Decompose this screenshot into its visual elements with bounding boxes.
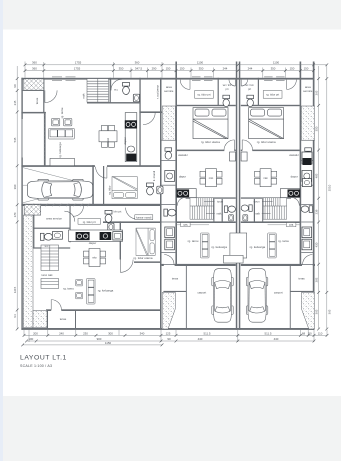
party wall right leaf — [239, 62, 241, 330]
left unit: teras right wall — [43, 78, 44, 113]
outer top wall — [21, 78, 314, 80]
left top bathroom sink — [133, 94, 139, 102]
svg-text:900: 900 — [97, 337, 102, 341]
corridor sink oval — [108, 223, 114, 231]
left unit top wall windows — [52, 77, 76, 81]
svg-text:dapur: dapur — [89, 241, 97, 245]
left unit: wall under stairs/bath y102.6 — [87, 102, 141, 103]
svg-text:350: 350 — [199, 66, 204, 70]
left unit: service rooms left wall x33.8 — [33, 206, 34, 249]
strip toilet2 horizontal — [164, 209, 176, 216]
top dim row 1 — [25, 64, 314, 66]
svg-text:90: 90 — [167, 337, 171, 341]
strip washer box — [165, 171, 175, 182]
left kitchen black appliance — [126, 154, 136, 161]
unit1 bath sink — [229, 215, 234, 221]
right strip dotted taper bottom — [301, 292, 314, 329]
left carport car (horizontal) — [27, 179, 92, 200]
svg-text:535: 535 — [13, 137, 17, 142]
left unit: bedroom1 top wall right of door — [107, 165, 162, 167]
u1 stairs treads (two flights, vertical treads) — [190, 198, 215, 219]
left blue edge strip — [0, 0, 3, 461]
teras inner door arc — [45, 90, 57, 102]
bottom dim row 1 — [24, 334, 327, 336]
svg-text:turun: turun — [217, 200, 223, 204]
strip between units: room divider lines — [162, 140, 314, 264]
svg-text:naik: naik — [82, 93, 86, 99]
left unit: wall y112 middle part — [139, 111, 176, 113]
svg-text:mkn: mkn — [209, 177, 214, 180]
boxed labels — [135, 215, 153, 220]
svg-text:265: 265 — [314, 90, 318, 95]
right strip teras door arc (mirror) — [303, 255, 313, 265]
extension lines top — [24, 62, 26, 78]
svg-text:kamar mandi: kamar mandi — [136, 215, 151, 219]
left unit: service rooms divider x70 — [70, 206, 71, 243]
svg-text:365: 365 — [327, 309, 331, 314]
svg-text:r. cuci jemur: r. cuci jemur — [156, 85, 160, 99]
svg-text:1100: 1100 — [197, 61, 204, 65]
svg-text:rg. tidur: rg. tidur — [108, 185, 112, 194]
svg-text:90: 90 — [13, 84, 17, 88]
unit2 family sofa — [268, 233, 277, 258]
unit2 bed — [249, 108, 284, 139]
svg-text:360: 360 — [32, 66, 37, 70]
u1 bath left wall x222 — [222, 199, 223, 222]
bedroom1 door arc — [96, 167, 107, 178]
unit2 bath toilet horizontal — [241, 205, 252, 211]
svg-text:mkn: mkn — [263, 177, 268, 180]
svg-text:150: 150 — [166, 66, 171, 70]
hatched wall ticks x44.5 — [44, 114, 46, 160]
right strip mirrors — [305, 148, 312, 159]
svg-text:wastafel: wastafel — [178, 154, 188, 157]
strip divider y160 — [162, 159, 176, 161]
svg-text:wc / km: wc / km — [223, 84, 231, 87]
u1 maid room divider x218 — [218, 78, 219, 106]
svg-text:rg. tamu: rg. tamu — [63, 286, 74, 290]
left unit: carport right wall — [92, 165, 94, 206]
area service door arc — [64, 211, 74, 221]
u1 bedroom bottom wall y150 right stub — [234, 150, 236, 152]
bottom dim row 3 — [23, 344, 162, 346]
svg-text:rg. tidur utama: rg. tidur utama — [201, 140, 220, 144]
svg-text:125: 125 — [166, 331, 171, 335]
svg-text:teras: teras — [60, 317, 67, 321]
carport to service door arc — [73, 206, 83, 216]
svg-text:rg. tidur prt: rg. tidur prt — [198, 92, 211, 96]
right strip divider y160 — [301, 159, 313, 161]
right-unit1 left wall (stops at family row) — [175, 62, 177, 267]
left unit: bedroom2 left wall — [120, 221, 121, 259]
svg-text:390: 390 — [13, 184, 17, 189]
planter box across party wall — [230, 233, 247, 258]
stairs top (left unit) — [87, 79, 109, 103]
unit1 bed — [193, 108, 228, 139]
bottom-left crosshatch box under carport wall — [24, 205, 41, 216]
svg-text:100: 100 — [28, 337, 33, 341]
svg-text:244: 244 — [248, 66, 253, 70]
u1 stairs right wall x214 — [213, 199, 214, 222]
strip teras door arc — [164, 255, 174, 265]
svg-text:230: 230 — [83, 331, 88, 335]
kitchen corridor door arc — [126, 208, 137, 219]
top dim row 2 — [25, 70, 314, 72]
left unit: teras right wall — [75, 310, 76, 329]
svg-text:rg. tidur prt: rg. tidur prt — [266, 92, 279, 96]
svg-text:prt: prt — [248, 88, 251, 91]
mid strip dotted hatch (left service shaft) — [162, 106, 175, 140]
left unit family: two armchairs — [76, 280, 83, 286]
svg-text:rg. tamu: rg. tamu — [60, 107, 64, 118]
left unit right boundary wall x161 — [160, 78, 162, 330]
svg-text:350: 350 — [271, 66, 276, 70]
corridor toilet — [105, 210, 112, 222]
service white box — [113, 232, 122, 240]
right-unit2 right wall (stops at family row) — [300, 62, 302, 267]
svg-text:rg. tamu: rg. tamu — [188, 239, 199, 243]
u1 maid rooms bottom wall y105.3 — [177, 105, 236, 106]
left unit dining set 1 (vertical) — [99, 125, 117, 147]
unit1 maid wc toilet — [223, 95, 230, 106]
svg-text:440: 440 — [198, 337, 203, 341]
svg-text:68: 68 — [302, 331, 306, 335]
svg-text:carport: carport — [274, 290, 283, 294]
left unit: teras left wall — [47, 310, 48, 329]
left unit dining set 2 — [84, 249, 106, 267]
svg-text:440: 440 — [274, 337, 279, 341]
u1 wc door arc — [229, 80, 235, 86]
right vertical dim line outer — [326, 65, 328, 329]
strip divider y222 — [162, 221, 176, 223]
svg-text:dapur: dapur — [179, 174, 186, 178]
svg-text:dapur: dapur — [123, 137, 127, 145]
left top bathroom toilet — [123, 83, 130, 95]
svg-text:238: 238 — [314, 209, 318, 214]
left unit: row divider wall y222 — [103, 221, 162, 223]
svg-text:350: 350 — [119, 66, 124, 70]
strip divider y264 — [162, 264, 176, 266]
service kitchen counter row — [69, 230, 123, 241]
right strip divider y204 — [301, 204, 313, 206]
unit2 dining set — [255, 169, 277, 187]
svg-text:1100: 1100 — [273, 61, 280, 65]
right strip divider y222 — [301, 221, 313, 223]
carport wedge lines — [23, 168, 91, 203]
right strip divider y140 — [301, 139, 313, 141]
outer right wall — [313, 62, 315, 330]
svg-text:service: service — [164, 89, 174, 93]
svg-text:service: service — [303, 89, 313, 93]
svg-text:360: 360 — [32, 61, 37, 65]
dim ticks — [16, 63, 329, 346]
svg-text:975: 975 — [289, 224, 294, 227]
svg-text:282: 282 — [314, 277, 318, 282]
left wall window (living room) — [21, 119, 23, 158]
svg-text:rg. keluarga: rg. keluarga — [98, 288, 114, 292]
left unit: wall under terrace hatch — [22, 89, 44, 92]
svg-text:1150: 1150 — [105, 341, 112, 345]
strip divider y140 — [162, 139, 176, 141]
left unit: carport top wall — [21, 165, 95, 167]
svg-text:300: 300 — [108, 331, 113, 335]
svg-text:975: 975 — [183, 224, 188, 227]
strip divider y204 — [162, 204, 176, 206]
outer bottom wall — [21, 328, 314, 330]
left unit: teras top wall left piece — [46, 309, 51, 311]
unit1 kitchen counter — [177, 189, 196, 198]
svg-text:rg. keluarga: rg. keluarga — [58, 142, 62, 158]
outer left wall — [21, 78, 22, 330]
left unit living: two armchairs — [52, 119, 60, 126]
carport south wall hatch ticks — [24, 203, 90, 206]
svg-text:teras: teras — [172, 277, 179, 281]
unit2 right-edge kitchen boxes (next to strip) — [302, 152, 312, 164]
svg-text:prt: prt — [226, 88, 229, 91]
svg-text:420: 420 — [314, 242, 318, 247]
left unit bed1 (vertical, pillows at bottom) — [112, 177, 137, 199]
svg-text:rg. tidur utama: rg. tidur utama — [257, 140, 276, 144]
u1 window marks on top wall — [192, 76, 201, 78]
svg-text:rg. keluarga: rg. keluarga — [250, 245, 266, 249]
svg-text:150: 150 — [290, 66, 295, 70]
svg-text:rg. tamu: rg. tamu — [278, 239, 289, 243]
unit1 dining set — [200, 169, 222, 187]
u1 teras bottom wall y291 — [163, 291, 186, 292]
stairs bottom-left (left unit) — [41, 245, 59, 289]
right strip divider y185 — [301, 184, 313, 186]
left unit: teras top wall right piece — [61, 309, 161, 311]
svg-text:naik: naik — [217, 212, 222, 216]
bottom dim row 2 — [27, 340, 315, 342]
svg-text:50: 50 — [308, 331, 312, 335]
right unit 2 mirrored geometry — [241, 77, 315, 330]
svg-text:244: 244 — [223, 66, 228, 70]
svg-text:200: 200 — [33, 331, 38, 335]
svg-text:turun naik: turun naik — [42, 274, 54, 277]
svg-text:LAYOUT LT.1: LAYOUT LT.1 — [20, 355, 67, 362]
left unit: bedroom1 left wall — [103, 166, 104, 205]
bathroom top door arc — [111, 79, 122, 90]
svg-text:carport: carport — [197, 290, 206, 294]
right strip divider y252 — [301, 252, 313, 254]
svg-text:150: 150 — [304, 66, 309, 70]
left kitchen stove — [125, 120, 137, 128]
svg-text:94: 94 — [13, 314, 17, 318]
svg-text:290: 290 — [152, 66, 157, 70]
right vertical dim line inner — [318, 66, 320, 329]
svg-text:k. mandi: k. mandi — [152, 171, 156, 182]
unit1 fridge on divider — [230, 152, 236, 161]
svg-text:511.5: 511.5 — [203, 331, 210, 335]
u1 bedroom door arc — [224, 140, 234, 150]
left unit: wall x140 (bath/kitchen) — [139, 78, 140, 166]
unit1 family sofa — [200, 233, 209, 258]
svg-text:teras: teras — [35, 97, 39, 104]
left kitchen column counter — [125, 113, 137, 162]
strip divider y185 — [162, 184, 176, 186]
svg-text:turun: turun — [254, 200, 260, 204]
left bath2 toilet — [147, 183, 154, 195]
unit1 carport car — [212, 269, 233, 323]
bedroom2 door arc — [120, 260, 133, 273]
svg-text:511.5: 511.5 — [264, 331, 271, 335]
left unit: hatched side wall x44.5 — [44, 113, 46, 165]
left unit: stairs/bath divider x110 — [110, 78, 111, 103]
service stove — [76, 232, 90, 240]
unit2 bath sink — [243, 215, 248, 221]
unit2 carport car — [246, 269, 267, 323]
svg-text:1755: 1755 — [74, 66, 81, 70]
bottom gray band — [0, 396, 341, 461]
extension lines bottom — [23, 330, 25, 336]
u1 teras/carport divider x186.3 — [185, 266, 188, 330]
svg-text:dapur: dapur — [291, 174, 298, 178]
strip washer boxes pair — [165, 227, 175, 238]
svg-text:rg. keluarga: rg. keluarga — [211, 245, 227, 249]
left unit family: long sofa vertical — [86, 279, 95, 305]
u1 bedroom bottom wall y150 left piece — [177, 150, 225, 152]
svg-text:naik: naik — [255, 212, 260, 216]
unit1 family dim callout line — [177, 224, 209, 226]
right strip dotted hatch — [301, 106, 314, 140]
front entry door arc — [51, 300, 61, 310]
left unit sideboard — [50, 158, 75, 165]
u1 stair-hall door arc — [177, 197, 185, 205]
svg-text:SCALE 1:100 / A3: SCALE 1:100 / A3 — [20, 364, 52, 368]
svg-text:mkn: mkn — [92, 257, 97, 260]
svg-text:mkn: mkn — [107, 137, 110, 142]
svg-text:347.5: 347.5 — [135, 66, 143, 70]
service black appliance — [100, 232, 112, 240]
left unit: wall y112 left part — [21, 112, 46, 114]
u1 family row bottom wall y264 — [175, 264, 236, 266]
dim numbers — [28, 61, 322, 345]
bottom-left dotted strip horizontal part — [33, 310, 47, 327]
left unit living: long sofa horizontal — [48, 128, 74, 139]
mid strip dotted taper bottom-left — [162, 292, 175, 329]
u1 dining bottom wall y198.6 — [186, 197, 236, 198]
svg-text:rg. tidur utama: rg. tidur utama — [134, 256, 153, 260]
left unit: wall y205 full — [21, 204, 161, 206]
svg-text:360: 360 — [135, 61, 140, 65]
right strip divider y264 — [301, 264, 313, 266]
svg-text:teras: teras — [298, 277, 305, 281]
left side yard dotted strip — [23, 215, 33, 328]
unit2 kitchen counter — [280, 189, 299, 198]
svg-text:150: 150 — [180, 66, 185, 70]
svg-text:340: 340 — [140, 331, 145, 335]
svg-text:170: 170 — [13, 212, 17, 217]
u1 family row top wall y222 — [177, 221, 236, 223]
svg-text:wastafel: wastafel — [289, 154, 299, 157]
left vertical dim line — [16, 66, 18, 329]
svg-text:1215: 1215 — [13, 286, 17, 293]
maid hall door arc — [143, 112, 155, 124]
unit2 fridge — [241, 152, 247, 161]
party wall left leaf — [236, 62, 238, 330]
left kitchen sink — [127, 146, 134, 152]
left unit: wc room bottom wall — [33, 247, 70, 248]
unit2 maid wc toilet — [247, 95, 254, 106]
left unit door arcs — [45, 79, 313, 310]
unit1 bath toilet horizontal — [224, 206, 235, 212]
svg-text:wc / km: wc / km — [245, 84, 253, 87]
wc room sink — [52, 232, 62, 240]
wc room toilet horizontal — [40, 233, 52, 240]
svg-text:1755: 1755 — [75, 61, 82, 65]
svg-text:350: 350 — [314, 126, 318, 131]
svg-text:240: 240 — [59, 331, 64, 335]
top-left terrace crosshatch box — [24, 79, 44, 90]
svg-text:485: 485 — [314, 173, 318, 178]
svg-text:215: 215 — [13, 100, 17, 105]
left unit: bedroom2 bottom wall — [134, 261, 162, 263]
left unit bed2 (horizontal, pillows right) — [136, 228, 155, 255]
u1 family row bottom wall stub left of door — [162, 264, 164, 266]
svg-text:rg. tidur prt: rg. tidur prt — [83, 220, 96, 224]
svg-text:365: 365 — [314, 309, 318, 314]
top gray band — [0, 0, 341, 30]
svg-text:area service: area service — [46, 216, 62, 220]
left unit: wc room top wall — [33, 228, 70, 229]
strip wc toilet — [165, 148, 172, 159]
svg-text:110: 110 — [318, 331, 323, 335]
svg-text:k/m prt: k/m prt — [114, 210, 122, 213]
svg-text:2510: 2510 — [327, 184, 331, 191]
strip divider y252 — [162, 252, 176, 254]
left bath2 sink — [157, 186, 163, 194]
u1 door arc entry top — [180, 77, 235, 150]
